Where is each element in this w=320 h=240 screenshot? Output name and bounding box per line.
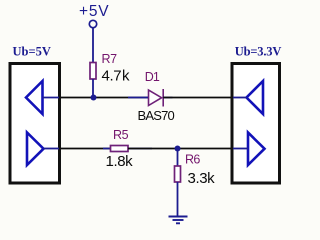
svg-text:R7: R7 [102,52,118,66]
stub wire right-top buffer [233,97,247,99]
stub wire left-bottom buffer [44,148,60,150]
wire +5V circle to R7 [92,28,94,63]
svg-text:R6: R6 [185,153,200,167]
resistor R6 [175,166,181,182]
wire R6 to ground [177,182,179,217]
resistor R5 [111,146,129,152]
ground symbol [169,217,188,224]
wire: top row, diode to right box [163,97,233,99]
wire stub navy right of R5 [128,148,152,150]
buffer left-top (points left) [26,81,43,114]
wire node to R6 [177,149,179,167]
stub wire left-top buffer [43,97,60,99]
buffer left-bottom (points right) [27,133,44,166]
svg-text:1.8k: 1.8k [106,153,134,170]
stub wire right-bottom buffer [233,148,248,150]
buffer right-bottom (points right) [248,133,265,166]
buffer right-top (points left) [247,81,264,114]
wire R7 to node [92,79,94,98]
svg-text:Ub=5V: Ub=5V [13,45,51,59]
svg-text:3.3k: 3.3k [188,170,216,187]
wire: bottom row, R5 to right box [128,148,233,150]
IC box left (5V side) [10,64,60,184]
svg-text:4.7 k: 4.7 k [102,68,131,85]
wire stub navy left of R5 [103,148,111,150]
resistor R7 [90,63,96,80]
svg-text:Ub=3.3V: Ub=3.3V [235,45,282,59]
power port circle [89,20,96,27]
wire stub navy left of diode [128,97,148,99]
junction node dot (top) [91,95,97,101]
wire: top row, left box to diode [59,97,148,99]
svg-text:BAS70: BAS70 [138,108,175,123]
svg-text:+5V: +5V [79,3,109,20]
diode D1 [149,89,164,107]
IC box right (3.3V side) [232,64,280,184]
junction node dot (bottom) [175,146,181,152]
svg-text:R5: R5 [113,128,129,142]
wire stub navy right of diode [163,97,172,99]
svg-text:D1: D1 [145,70,160,84]
wire: bottom row, left box to R5 [59,148,111,150]
